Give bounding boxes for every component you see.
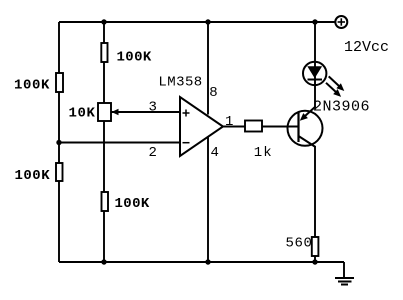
- resistor R 100K column2 top: [101, 43, 107, 62]
- svg-text:4: 4: [211, 145, 219, 161]
- junction top rail LED branch: [312, 19, 317, 24]
- wire pin4 to bottom rail: [207, 137, 209, 262]
- potentiometer wiper arrowhead: [112, 109, 119, 116]
- potentiometer 10K body: [98, 103, 111, 121]
- resistor R 100K column2 lower: [102, 192, 109, 211]
- wire collector vertical: [314, 146, 316, 237]
- resistor R 100K top-left: [56, 73, 63, 92]
- resistor 1k horizontal: [245, 121, 262, 132]
- junction bottom rail 560: [312, 259, 317, 264]
- svg-text:3: 3: [149, 100, 157, 116]
- wire top rail: [59, 21, 335, 23]
- junction left rail pin2: [56, 140, 61, 145]
- svg-text:8: 8: [209, 85, 217, 101]
- op-amp minus input sign: [183, 142, 190, 144]
- junction top rail pin8: [205, 19, 210, 24]
- supply terminal plus sign: [338, 18, 345, 25]
- svg-text:LM358: LM358: [158, 74, 202, 90]
- wire 1k to transistor base: [262, 126, 298, 128]
- LED triangle: [307, 66, 322, 78]
- transistor emitter arrowhead: [300, 113, 308, 121]
- op-amp plus input sign: [183, 110, 190, 117]
- wire bottom rail: [59, 261, 344, 263]
- wire pin8 from top rail: [207, 22, 209, 115]
- wire op-amp output to 1k: [223, 126, 245, 128]
- svg-text:2N3906: 2N3906: [313, 99, 370, 116]
- transistor emitter diagonal: [304, 107, 316, 118]
- wire column2 bottom segment: [103, 211, 105, 262]
- wire 560 to bottom rail: [314, 256, 316, 262]
- LED cathode bar: [308, 79, 323, 81]
- supply terminal plus circle: [335, 16, 347, 28]
- transistor Q1 2N3906 circle: [288, 111, 323, 146]
- transistor base bar: [297, 113, 299, 143]
- svg-text:2: 2: [149, 145, 157, 161]
- svg-text:1k: 1k: [254, 145, 273, 161]
- wire ground lead: [343, 262, 345, 278]
- LED light arrow 1: [329, 76, 345, 91]
- junction top rail col2: [101, 19, 106, 24]
- svg-text:100K: 100K: [15, 168, 51, 184]
- wire column2 between R and pot: [103, 62, 105, 103]
- transistor collector diagonal: [299, 136, 316, 147]
- resistor R 100K left lower: [56, 163, 63, 181]
- junction bottom rail pin4: [205, 259, 210, 264]
- wire pin2 from left rail to op-amp: [59, 142, 180, 144]
- svg-text:12Vcc: 12Vcc: [344, 39, 389, 56]
- resistor 560: [312, 237, 319, 256]
- wire column2 between pot and lower R: [103, 121, 105, 192]
- svg-text:100K: 100K: [14, 77, 50, 93]
- svg-text:100K: 100K: [115, 196, 150, 212]
- svg-text:560: 560: [286, 236, 313, 252]
- svg-text:10K: 10K: [69, 106, 96, 122]
- wire LED branch from top rail: [314, 22, 316, 107]
- junction bottom rail col2: [101, 259, 106, 264]
- svg-text:1: 1: [225, 114, 233, 130]
- LED light arrow 2: [326, 83, 341, 97]
- wire left rail: [58, 22, 60, 262]
- LED D1 circle: [303, 62, 326, 85]
- ground: [335, 278, 354, 285]
- op-amp U1 LM358 triangle: [180, 97, 223, 156]
- svg-text:100K: 100K: [117, 50, 152, 66]
- wire column2 top segment: [103, 22, 105, 43]
- wire pin3 from wiper to op-amp: [112, 111, 181, 113]
